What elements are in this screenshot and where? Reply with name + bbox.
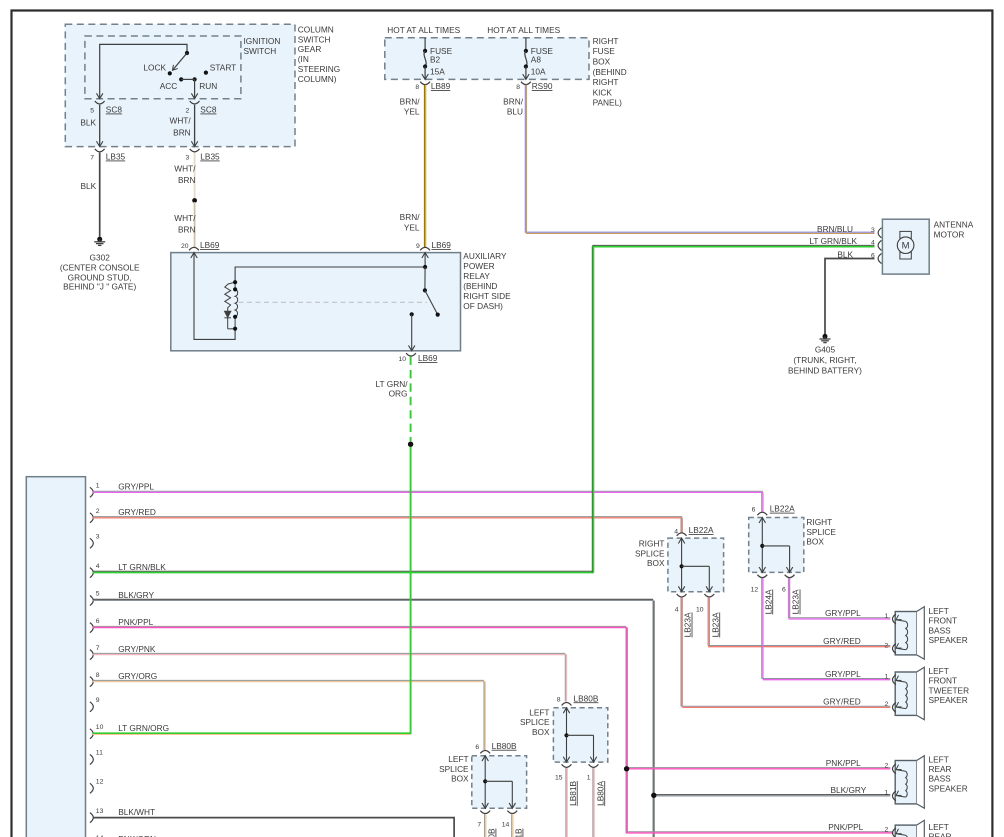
svg-text:LB80B: LB80B — [487, 828, 497, 837]
pin 2 radio connector — [90, 507, 156, 523]
svg-text:(TRUNK, RIGHT,: (TRUNK, RIGHT, — [793, 355, 856, 365]
wire BLK to G302 — [81, 153, 100, 237]
svg-text:BRN/: BRN/ — [400, 212, 421, 222]
svg-text:LB24A: LB24A — [763, 589, 773, 614]
svg-text:STEERING: STEERING — [298, 64, 340, 74]
column switch gear label — [298, 24, 340, 84]
svg-text:SPEAKER: SPEAKER — [929, 783, 968, 793]
svg-text:6: 6 — [752, 507, 756, 514]
svg-text:SPLICE: SPLICE — [806, 527, 836, 537]
svg-text:14: 14 — [502, 822, 510, 829]
svg-text:12: 12 — [751, 587, 759, 594]
wire BLK/GRY row5 — [93, 599, 890, 837]
pin 4 radio connector — [90, 562, 166, 578]
left splice box lower label — [439, 754, 469, 784]
connector LB69 pin 20 — [181, 240, 220, 258]
svg-text:13: 13 — [96, 808, 104, 815]
svg-text:9: 9 — [416, 243, 420, 250]
svg-text:BEHIND BATTERY): BEHIND BATTERY) — [788, 365, 862, 375]
svg-text:BLK: BLK — [81, 181, 97, 191]
right fuse box — [385, 38, 589, 80]
svg-text:BRN: BRN — [178, 175, 196, 185]
svg-text:8: 8 — [96, 672, 100, 679]
svg-text:LB22A: LB22A — [770, 504, 795, 514]
right splice box LB22A-6 — [749, 518, 804, 573]
label PNK/PPL at rear — [828, 822, 863, 832]
connector LB35 pin 3 — [186, 142, 221, 162]
wire pin14 down — [512, 814, 513, 837]
label G302 — [60, 252, 140, 291]
node ignition rotor — [185, 51, 189, 55]
svg-text:SWITCH: SWITCH — [298, 34, 331, 44]
left splice box upper label — [520, 707, 550, 737]
svg-text:LOCK: LOCK — [143, 62, 166, 72]
left rear bass speaker — [885, 754, 968, 808]
wire BRN/YEL — [400, 85, 426, 248]
radio harness connector box — [26, 477, 85, 837]
node LT GRN/ORG splice — [408, 442, 413, 447]
svg-text:LB80B: LB80B — [574, 693, 599, 703]
pin 14 radio connector — [90, 834, 156, 837]
svg-text:TWEETER: TWEETER — [929, 685, 970, 695]
svg-text:LB81B: LB81B — [514, 828, 524, 837]
svg-text:1: 1 — [885, 613, 889, 620]
svg-text:8: 8 — [415, 84, 419, 91]
svg-text:7: 7 — [90, 155, 94, 162]
node relay top — [423, 265, 427, 269]
motor pin 4 — [809, 236, 881, 251]
left front bass speaker — [885, 606, 968, 659]
ignition switch box — [85, 36, 241, 99]
node RUN — [193, 77, 218, 91]
left splice box LB80B-6 — [472, 756, 527, 809]
switch blade to LOCK — [171, 53, 187, 72]
svg-text:COLUMN): COLUMN) — [298, 74, 337, 84]
ignition switch label — [244, 36, 281, 56]
connector LB24A pin 12 — [751, 575, 774, 615]
svg-text:SPEAKER: SPEAKER — [929, 695, 968, 705]
wire GRY/PPL row1 — [93, 491, 763, 512]
relay label — [463, 251, 511, 311]
svg-text:BRN/: BRN/ — [400, 96, 421, 106]
label GRY/PPL at tweeter — [825, 669, 861, 679]
svg-text:YEL: YEL — [404, 223, 420, 233]
connector LB69 pin 9 — [416, 240, 451, 258]
wire GRY/PNK row7 — [93, 653, 567, 701]
connector SC8 pin 2 — [186, 94, 217, 115]
connector LB23A pin 4 — [675, 594, 693, 637]
svg-text:BOX: BOX — [806, 537, 824, 547]
svg-text:LEFT: LEFT — [529, 707, 549, 717]
connector LB80B pin 8 — [557, 693, 599, 705]
svg-text:(BEHIND: (BEHIND — [463, 281, 497, 291]
svg-text:10: 10 — [96, 724, 104, 731]
svg-text:SC8: SC8 — [106, 105, 123, 115]
svg-text:LB89: LB89 — [431, 81, 451, 91]
svg-text:20: 20 — [181, 243, 189, 250]
pin 6 radio connector — [90, 617, 154, 633]
connector LB22A pin 6 — [752, 504, 795, 516]
node LOCK — [143, 62, 171, 75]
label hot at all times 2 — [487, 25, 560, 35]
svg-text:RELAY: RELAY — [463, 271, 490, 281]
fuse A8 10A — [524, 38, 554, 80]
svg-text:LEFT: LEFT — [929, 754, 949, 764]
svg-text:GRY/RED: GRY/RED — [823, 636, 861, 646]
svg-text:BASS: BASS — [929, 774, 952, 784]
svg-text:COLUMN: COLUMN — [298, 24, 334, 34]
relay mechanical link — [239, 301, 428, 303]
wire BLK/WHT row13 — [93, 818, 454, 837]
svg-text:BRN/BLU: BRN/BLU — [817, 224, 853, 234]
svg-text:RIGHT: RIGHT — [593, 36, 619, 46]
relay output contact — [409, 312, 415, 351]
svg-text:5: 5 — [96, 591, 100, 598]
svg-text:LB69: LB69 — [432, 240, 452, 250]
svg-text:GRY/ORG: GRY/ORG — [118, 671, 157, 681]
svg-text:YEL: YEL — [404, 107, 420, 117]
svg-text:LT GRN/BLK: LT GRN/BLK — [118, 562, 166, 572]
svg-text:6: 6 — [96, 618, 100, 625]
pin 8 radio connector — [90, 671, 157, 687]
label GRY/RED at bass — [823, 636, 861, 646]
svg-text:3: 3 — [96, 534, 100, 541]
wire LB80A down — [593, 768, 594, 837]
pin 1 radio connector — [90, 482, 155, 498]
antenna motor label — [934, 220, 974, 240]
node START — [204, 62, 236, 74]
svg-text:GRY/PPL: GRY/PPL — [825, 608, 861, 618]
motor symbol — [897, 231, 914, 259]
svg-text:BOX: BOX — [532, 727, 550, 737]
svg-text:IGNITION: IGNITION — [244, 36, 281, 46]
splice 2 internal — [759, 518, 792, 573]
motor pin 3 — [817, 224, 881, 238]
auxiliary power relay box — [171, 253, 461, 351]
svg-text:MOTOR: MOTOR — [934, 230, 965, 240]
wire BLK motor to G405 — [825, 259, 875, 335]
wire LT GRN/ORG vertical — [410, 443, 412, 734]
splice LB80B-8 internal — [564, 708, 597, 762]
svg-text:BRN: BRN — [173, 128, 191, 138]
pin 11 radio connector — [90, 750, 103, 765]
relay coil inductor — [235, 282, 238, 329]
svg-text:15A: 15A — [430, 67, 445, 77]
svg-text:BRN/: BRN/ — [503, 96, 524, 106]
wire GRY/RED to bass — [708, 597, 890, 646]
relay pin 9 branch — [235, 253, 425, 283]
svg-text:M: M — [902, 241, 910, 252]
wire GRY/PPL to tweeter — [762, 578, 891, 680]
wire GRY/RED to tweeter — [681, 597, 890, 707]
svg-text:GRY/RED: GRY/RED — [118, 507, 156, 517]
svg-text:BLK: BLK — [80, 118, 96, 128]
wire WHT/BRN lower — [174, 202, 196, 247]
svg-text:ANTENNA: ANTENNA — [934, 220, 974, 230]
svg-text:BRN: BRN — [178, 225, 196, 235]
wire LB81B down — [566, 768, 567, 837]
node BLK/GRY junction — [651, 793, 656, 798]
node PNK/PPL junction — [624, 766, 629, 771]
connector pin 7 — [477, 811, 496, 837]
connector LB35 pin 7 — [90, 142, 125, 162]
svg-text:LB22A: LB22A — [689, 525, 714, 535]
svg-text:(IN: (IN — [298, 54, 309, 64]
wire ignition feed — [100, 44, 187, 98]
svg-text:LB80B: LB80B — [492, 741, 517, 751]
svg-text:RUN: RUN — [199, 81, 217, 91]
svg-text:START: START — [210, 62, 236, 72]
svg-text:10A: 10A — [531, 67, 546, 77]
svg-text:B2: B2 — [430, 54, 441, 64]
svg-text:15: 15 — [555, 774, 563, 781]
svg-text:RIGHT SIDE: RIGHT SIDE — [463, 291, 511, 301]
node ACC — [160, 77, 184, 91]
connector LB81B pin 15 — [555, 764, 578, 806]
antenna motor box — [882, 219, 929, 274]
svg-text:LEFT: LEFT — [929, 666, 949, 676]
svg-text:FRONT: FRONT — [929, 616, 958, 626]
label BLK/GRY at rear bass — [830, 785, 866, 795]
svg-text:G405: G405 — [815, 344, 836, 354]
svg-text:BLK/WHT: BLK/WHT — [118, 807, 155, 817]
label PNK/PPL at rear bass — [826, 758, 861, 768]
connector LB23A pin 6 — [782, 575, 801, 615]
pin 12 radio connector — [90, 779, 104, 794]
svg-text:LT GRN/ORG: LT GRN/ORG — [118, 723, 169, 733]
left front tweeter speaker — [885, 666, 970, 720]
svg-text:5: 5 — [90, 108, 94, 115]
svg-text:POWER: POWER — [463, 261, 494, 271]
connector LB23A pin 10 — [696, 594, 720, 637]
label GRY/RED at tweeter — [823, 697, 861, 707]
pin 13 radio connector — [90, 807, 155, 823]
label G405 — [788, 344, 862, 375]
svg-text:LEFT: LEFT — [929, 822, 949, 832]
svg-text:8: 8 — [557, 696, 561, 703]
connector LB22A pin 4 — [674, 525, 714, 536]
right fuse box label — [593, 36, 627, 108]
svg-text:ORG: ORG — [389, 389, 408, 399]
svg-text:OF DASH): OF DASH) — [463, 301, 503, 311]
svg-text:SPLICE: SPLICE — [635, 548, 665, 558]
svg-text:RIGHT: RIGHT — [593, 77, 619, 87]
wire BRN/BLU — [503, 85, 874, 234]
svg-text:2: 2 — [96, 508, 100, 515]
svg-text:RIGHT: RIGHT — [806, 517, 832, 527]
svg-text:12: 12 — [96, 779, 104, 786]
svg-text:BLU: BLU — [507, 107, 523, 117]
wire PNK/PPL row6 — [93, 626, 894, 833]
svg-text:LB69: LB69 — [418, 353, 438, 363]
node WHT/BRN splice — [192, 198, 197, 203]
column switch gear box — [65, 24, 295, 146]
svg-text:8: 8 — [516, 84, 520, 91]
svg-text:WHT/: WHT/ — [174, 164, 196, 174]
svg-text:A8: A8 — [531, 54, 542, 64]
svg-text:BLK/GRY: BLK/GRY — [830, 785, 866, 795]
wire LT GRN/BLK row4 — [93, 245, 875, 572]
splice LB80B-6 internal — [482, 756, 515, 809]
svg-text:FRONT: FRONT — [929, 676, 958, 686]
connector LB80B pin 6 — [475, 741, 517, 754]
wire GRY/ORG row8 — [93, 680, 485, 750]
svg-text:LB23A: LB23A — [710, 612, 720, 637]
wire WHT/BRN pin2 down — [169, 105, 194, 147]
pin 9 radio connector — [90, 697, 100, 712]
svg-text:3: 3 — [186, 155, 190, 162]
node coil top — [233, 280, 237, 291]
left rear speaker — [885, 820, 952, 837]
pin 10 radio connector — [90, 723, 169, 739]
wire GRY/RED row2 — [93, 517, 682, 533]
svg-text:7: 7 — [477, 822, 481, 829]
svg-text:BOX: BOX — [451, 774, 469, 784]
svg-text:4: 4 — [674, 529, 678, 536]
wire LT GRN/ORG dashed — [376, 357, 411, 442]
svg-text:BEHIND "J " GATE): BEHIND "J " GATE) — [63, 281, 136, 291]
svg-text:BLK/GRY: BLK/GRY — [118, 590, 154, 600]
wire RUN down — [194, 79, 196, 98]
connector LB89 pin 8 — [415, 74, 450, 91]
right splice box LB22A-4 — [668, 538, 724, 592]
svg-text:1: 1 — [96, 483, 100, 490]
ground G405 — [820, 334, 831, 343]
svg-text:2: 2 — [186, 108, 190, 115]
relay switch — [423, 267, 440, 317]
svg-text:LB69: LB69 — [200, 240, 220, 250]
pin 5 radio connector — [90, 590, 155, 606]
svg-text:LB23A: LB23A — [791, 589, 801, 614]
svg-text:6: 6 — [782, 587, 786, 594]
svg-text:10: 10 — [696, 607, 704, 614]
relay coil feed from pin 20 — [194, 253, 235, 340]
wire WHT/BRN upper — [174, 153, 196, 199]
svg-text:HOT AT ALL TIMES: HOT AT ALL TIMES — [487, 25, 560, 35]
svg-text:BOX: BOX — [593, 57, 611, 67]
splice 1 internal — [679, 538, 713, 592]
svg-text:LEFT: LEFT — [929, 606, 949, 616]
svg-text:GRY/PPL: GRY/PPL — [825, 669, 861, 679]
svg-text:SWITCH: SWITCH — [244, 46, 277, 56]
svg-text:G302: G302 — [90, 252, 111, 262]
svg-text:GRY/PPL: GRY/PPL — [118, 482, 154, 492]
svg-text:PNK/PPL: PNK/PPL — [826, 758, 861, 768]
svg-text:RIGHT: RIGHT — [639, 538, 665, 548]
wire pin7 down — [485, 814, 486, 837]
wire LT GRN/ORG row10 — [93, 733, 411, 734]
svg-text:SPLICE: SPLICE — [520, 717, 550, 727]
svg-text:GRY/RED: GRY/RED — [823, 697, 861, 707]
svg-text:4: 4 — [675, 607, 679, 614]
svg-text:6: 6 — [475, 744, 479, 751]
svg-text:2: 2 — [885, 642, 889, 649]
svg-text:REAR: REAR — [929, 832, 952, 837]
svg-text:SPLICE: SPLICE — [439, 764, 469, 774]
wire GRY/PPL to bass — [788, 578, 890, 619]
svg-text:11: 11 — [96, 750, 103, 757]
svg-text:PANEL): PANEL) — [593, 98, 623, 108]
ground G302 — [94, 237, 105, 246]
svg-text:GEAR: GEAR — [298, 44, 322, 54]
svg-text:LB35: LB35 — [106, 152, 126, 162]
svg-text:ACC: ACC — [160, 81, 178, 91]
svg-text:LB80A: LB80A — [595, 781, 605, 806]
connector RS90 pin 8 — [516, 74, 553, 91]
svg-text:AUXILIARY: AUXILIARY — [463, 251, 507, 261]
svg-text:4: 4 — [96, 563, 100, 570]
svg-text:BASS: BASS — [929, 625, 952, 635]
svg-text:1: 1 — [885, 674, 889, 681]
svg-text:BOX: BOX — [647, 558, 665, 568]
svg-text:(CENTER CONSOLE: (CENTER CONSOLE — [60, 263, 140, 273]
svg-text:HOT AT ALL TIMES: HOT AT ALL TIMES — [387, 25, 460, 35]
svg-text:SPEAKER: SPEAKER — [929, 635, 968, 645]
connector SC8 pin 5 — [90, 94, 122, 115]
svg-text:FUSE: FUSE — [593, 46, 616, 56]
svg-text:2: 2 — [885, 827, 889, 834]
wire BLK pin5 down — [80, 105, 99, 147]
svg-text:PNK/PPL: PNK/PPL — [828, 822, 863, 832]
svg-text:2: 2 — [885, 701, 889, 708]
svg-text:(BEHIND: (BEHIND — [593, 67, 627, 77]
svg-text:PNK/PPL: PNK/PPL — [118, 617, 153, 627]
wire ACC-RUN — [181, 78, 194, 80]
right splice box 1 label — [635, 538, 665, 568]
relay coil resistor — [224, 282, 235, 329]
motor pin 6 — [837, 250, 881, 264]
connector LB80A pin 1 — [587, 764, 606, 806]
label GRY/PPL at bass — [825, 608, 861, 618]
svg-text:REAR: REAR — [929, 764, 952, 774]
svg-text:2: 2 — [885, 763, 889, 770]
svg-text:WHT/: WHT/ — [174, 213, 196, 223]
svg-text:KICK: KICK — [593, 87, 613, 97]
svg-text:10: 10 — [398, 356, 406, 363]
svg-text:9: 9 — [96, 697, 100, 704]
connector pin 14 — [502, 811, 524, 837]
svg-text:WHT/: WHT/ — [169, 116, 191, 126]
pin 7 radio connector — [90, 644, 156, 660]
left splice box LB80B-8 — [553, 708, 607, 762]
svg-text:7: 7 — [96, 645, 100, 652]
svg-text:LB35: LB35 — [200, 152, 220, 162]
svg-text:SC8: SC8 — [200, 105, 217, 115]
svg-text:RS90: RS90 — [532, 81, 553, 91]
svg-text:LT GRN/BLK: LT GRN/BLK — [809, 236, 857, 246]
svg-text:LB23A: LB23A — [683, 612, 693, 637]
svg-text:LB81B: LB81B — [568, 781, 578, 806]
pin 3 radio connector — [90, 534, 100, 549]
svg-text:LEFT: LEFT — [448, 754, 468, 764]
connector LB69 pin 10 — [398, 353, 437, 363]
fuse B2 15A — [423, 38, 453, 80]
svg-text:1: 1 — [885, 790, 889, 797]
label hot at all times 1 — [387, 25, 460, 35]
svg-text:GRY/PNK: GRY/PNK — [118, 644, 156, 654]
right splice box 2 label — [806, 517, 836, 547]
svg-text:1: 1 — [587, 774, 591, 781]
node coil bottom — [233, 315, 237, 331]
svg-text:3: 3 — [871, 227, 875, 234]
